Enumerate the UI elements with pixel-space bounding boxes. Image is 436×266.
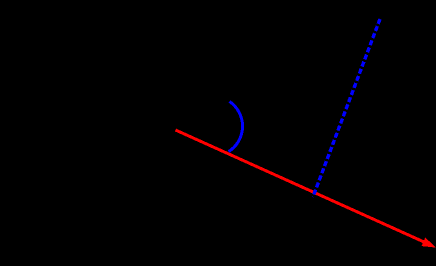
- red vector arrowhead: [422, 238, 436, 248]
- wire: blue dashed line: [313, 19, 380, 197]
- angle arc: [229, 102, 243, 152]
- wire: red vector shaft: [176, 130, 425, 242]
